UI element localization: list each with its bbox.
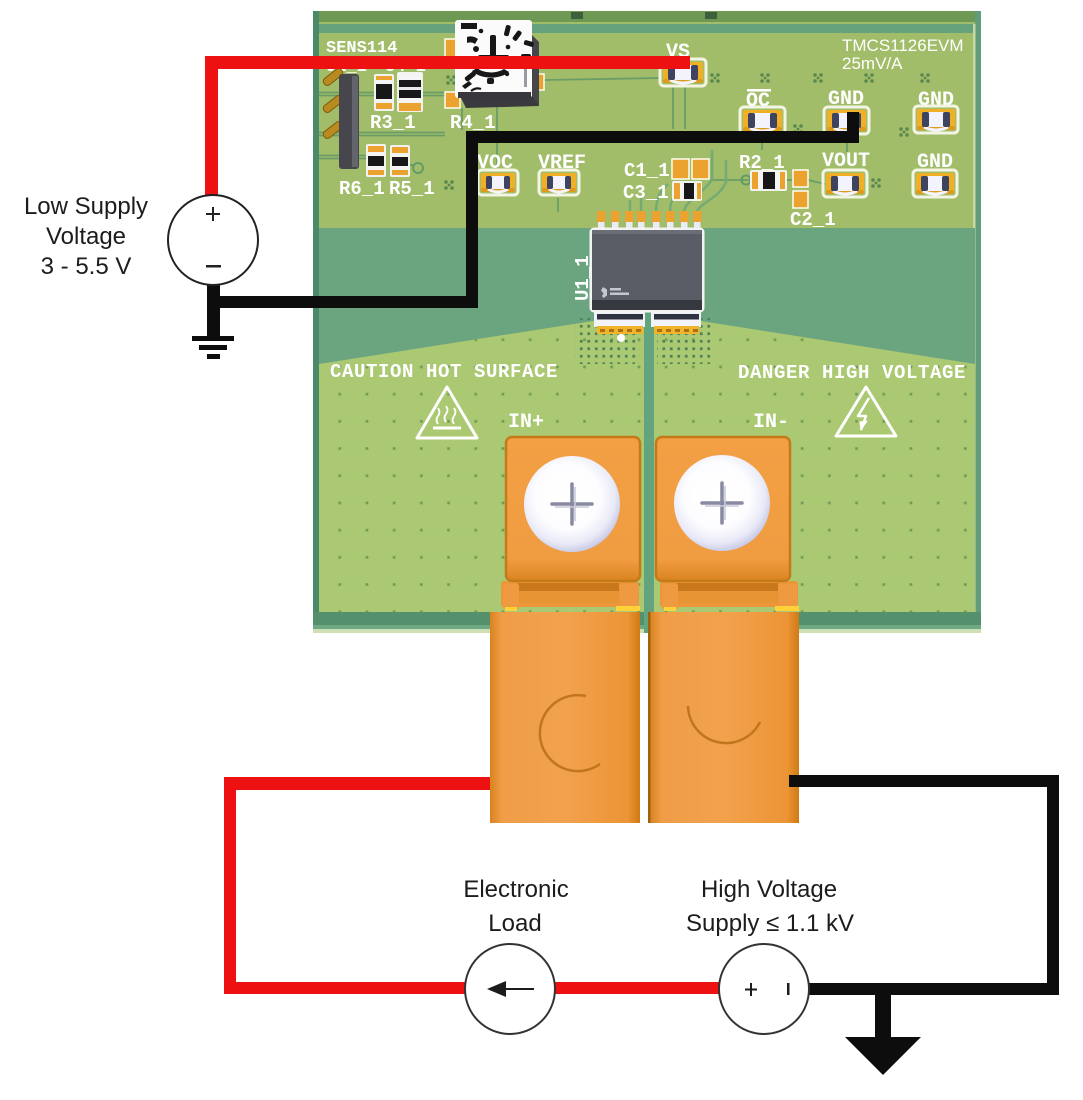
wire red bottom lower horizontal (224, 982, 764, 994)
test point GND top-right (914, 106, 958, 133)
test point VOC (478, 170, 518, 195)
svg-text:Supply ≤ 1.1 kV: Supply ≤ 1.1 kV (686, 910, 854, 937)
terminal IN+ block (506, 437, 640, 581)
svg-text:IN+: IN+ (508, 411, 544, 434)
terminal IN+ hinge (501, 581, 640, 611)
resistor R2_1 chip (750, 170, 787, 191)
op-amp sensor U1_1 bottom pads (594, 308, 701, 342)
board lower face wedge (319, 321, 975, 614)
copper traces (319, 78, 847, 212)
capacitor C3_1 chip (672, 181, 702, 201)
test point VREF (539, 170, 579, 195)
potentiometer R4_1 body (455, 20, 539, 108)
svg-text:GND: GND (918, 89, 954, 112)
test point VOUT (823, 170, 867, 197)
white via dot (617, 334, 625, 342)
svg-text:Voltage: Voltage (46, 223, 126, 250)
svg-text:Electronic: Electronic (463, 876, 568, 903)
test point OC (740, 107, 785, 134)
test point VS (660, 59, 706, 86)
svg-text:SENS114: SENS114 (326, 39, 397, 58)
wire black bottom lower horizontal (764, 983, 1059, 995)
svg-text:C3_1: C3_1 (623, 182, 669, 204)
svg-text:R3_1: R3_1 (370, 112, 416, 134)
plus sign of HV supply (745, 983, 757, 996)
trace ring near R5_1 (413, 163, 423, 173)
header J1_1 body (339, 74, 359, 169)
svg-text:C1_1: C1_1 (624, 160, 670, 182)
svg-text:R5_1: R5_1 (389, 178, 435, 200)
svg-text:IN-: IN- (753, 411, 789, 434)
voltage source: High Voltage Supply circle (719, 944, 809, 1034)
header J1_1 pins (322, 67, 359, 169)
earth arrow (845, 1037, 921, 1075)
voltage source: Low Supply Voltage circle (168, 195, 258, 285)
hot surface warning triangle (417, 387, 477, 438)
svg-text:Load: Load (488, 910, 541, 937)
trace ring near R2_1 (742, 176, 751, 185)
capacitor C1_1 pads (672, 159, 709, 179)
dense via field right of U1_1 (657, 318, 713, 364)
potentiometer R4_1 pads (445, 39, 544, 108)
resistor R3_1 chip b (397, 72, 423, 112)
central kelvin slot trace (644, 309, 654, 633)
wire red VS supply horizontal (205, 56, 690, 69)
dense via field left of U1_1 (575, 318, 640, 364)
arrow inside electronic load (500, 988, 534, 990)
via cluster marks (444, 73, 930, 190)
board bottom edge (313, 612, 981, 626)
ground symbol (low supply) (192, 336, 234, 359)
terminal IN- hinge (660, 581, 799, 611)
board top edge bevel (313, 11, 981, 22)
svg-text:TMCS1126EVM: TMCS1126EVM (842, 36, 964, 55)
op-amp sensor U1_1 pins (597, 211, 702, 232)
TI logo on U1_1 (601, 287, 629, 298)
svg-text:3 - 5.5 V: 3 - 5.5 V (41, 253, 132, 280)
current source: Electronic Load circle (465, 944, 555, 1034)
svg-text:C2_1: C2_1 (790, 209, 836, 231)
board left edge (313, 11, 319, 633)
screw IN- (674, 455, 770, 551)
op-amp sensor U1_1 body (591, 229, 703, 311)
board top teal strip (319, 24, 975, 33)
terminal gap shadow (640, 634, 650, 824)
plus sign of low supply (206, 207, 220, 221)
top edge fiducial dashes (571, 12, 583, 19)
high voltage warning triangle (836, 387, 896, 436)
wire red bottom horizontal from IN+ (224, 777, 490, 790)
wire black GND pad stub (847, 112, 859, 143)
svg-text:25mV/A: 25mV/A (842, 54, 903, 73)
svg-text:DANGER HIGH VOLTAGE: DANGER HIGH VOLTAGE (738, 362, 966, 384)
svg-text:R4_1: R4_1 (450, 112, 496, 134)
terminal IN+ lower body (490, 612, 640, 823)
svg-text:High Voltage: High Voltage (701, 876, 837, 903)
screw IN+ (524, 456, 620, 552)
wire black lower horizontal (207, 296, 478, 308)
sparse via dot grid (319, 321, 975, 612)
svg-text:CAUTION HOT SURFACE: CAUTION HOT SURFACE (330, 361, 558, 383)
svg-text:R6_1: R6_1 (339, 178, 385, 200)
wire red VS supply vertical (205, 56, 218, 195)
svg-text:VOC: VOC (477, 152, 513, 175)
wire black earth stub (875, 989, 891, 1040)
wire black bottom right vertical (1047, 775, 1059, 995)
test point GND top (824, 107, 869, 134)
wire black vertical (466, 131, 478, 308)
minus sign of low supply (206, 265, 221, 268)
resistor R3_1 chip a (374, 74, 394, 111)
board right edge (975, 11, 981, 633)
wire red bottom left vertical (224, 777, 236, 994)
PCB board TMCS1126EVM outline (313, 11, 981, 633)
board middle teal band (319, 228, 975, 368)
terminal IN- lower body (650, 612, 799, 823)
rotor marks (461, 23, 534, 91)
wire black bottom horizontal from IN- (789, 775, 1059, 787)
wire black supply-to-ground stub (207, 240, 220, 341)
resistor R6_1 chip (366, 144, 386, 177)
resistor R5_1 chip (390, 145, 410, 177)
capacitor C2_1 pads (793, 170, 808, 208)
traces from U1_1 pins (630, 150, 726, 212)
svg-text:Low Supply: Low Supply (24, 193, 148, 220)
test point GND bottom-right (913, 170, 957, 197)
minus bar of HV supply (787, 983, 790, 995)
terminal IN- block (656, 437, 790, 581)
svg-text:OC: OC (746, 90, 770, 113)
wire black upper horizontal (466, 131, 859, 143)
